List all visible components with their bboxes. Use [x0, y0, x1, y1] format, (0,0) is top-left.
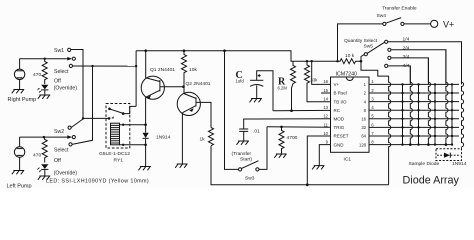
svg-text:Sample Diode: Sample Diode [409, 161, 440, 167]
svg-text:12: 12 [323, 114, 328, 119]
svg-text:Start): Start) [240, 157, 252, 163]
switch Sw5 pole [364, 53, 367, 56]
node RC R-tap [290, 109, 293, 112]
transistor Q2 2N4401 [177, 81, 211, 116]
capacitor C 1ufd (polarized) [236, 70, 264, 86]
svg-text:64: 64 [361, 134, 366, 139]
wire relay armature to vertical x136 [123, 106, 136, 113]
wire Q1 base to node [160, 86, 184, 88]
svg-text:16: 16 [323, 79, 328, 84]
resistor 33k [305, 60, 331, 102]
wire M2 bottom to ground [19, 157, 21, 170]
wire Sw1 top throw to vertical x83 [71, 50, 83, 119]
terminal V+ [431, 19, 455, 29]
svg-text:RY1: RY1 [114, 158, 124, 164]
wire V+ rail [136, 51, 338, 62]
ground under Right Pump [12, 90, 24, 94]
wire output row 1 [369, 83, 459, 85]
wire output row 64 [369, 135, 459, 137]
svg-text:TB I/O: TB I/O [334, 99, 348, 104]
motor M2 Left Pump [7, 147, 32, 190]
label Sw2 Select Off (Override) [54, 148, 78, 177]
relay contact common dot [108, 108, 111, 111]
IC internal output numbers [359, 82, 367, 147]
IC left pin labels [334, 82, 349, 147]
svg-text:TRIG: TRIG [334, 125, 345, 130]
IC U1 ICM7240 [331, 72, 370, 163]
svg-text:4700: 4700 [287, 135, 298, 141]
svg-text:Sw4: Sw4 [377, 13, 387, 19]
wire vertical x136 (rail / Off bus / relay arm) [135, 51, 137, 107]
switch Sw1 arm wire [20, 58, 68, 60]
LED D1 [37, 85, 48, 95]
svg-text:V+: V+ [443, 19, 454, 29]
svg-text:Sw1: Sw1 [54, 48, 64, 54]
svg-text:Select: Select [54, 69, 69, 75]
diode column D with junction dots [451, 83, 453, 146]
select column 3/4 with hops [428, 58, 430, 145]
capacitor .01 [239, 129, 260, 141]
wire coil top to emitter line [120, 124, 146, 126]
pin 15 stub (B Rsel, unconnected) [321, 92, 331, 94]
wire RC line to pin 13 [273, 109, 331, 111]
wire Q1 emitter vertical down to ground [145, 97, 147, 132]
diode column A with junction dots [401, 83, 403, 146]
wire MOD line to pin 12 [244, 119, 331, 129]
svg-text:IC1: IC1 [344, 157, 352, 163]
svg-text:Diode Array: Diode Array [403, 175, 460, 187]
select column 2/4 with hops [446, 50, 448, 145]
svg-text:470: 470 [33, 72, 41, 78]
relay coil [111, 123, 120, 145]
wire output row 32 [369, 126, 459, 128]
svg-text:Left Pump: Left Pump [7, 184, 32, 189]
svg-text:15: 15 [323, 88, 328, 93]
sample diode 1N914 [437, 153, 461, 158]
LED D2 [37, 164, 48, 176]
svg-text:2/4: 2/4 [403, 45, 410, 51]
wire Q2 collector up to base node [183, 87, 185, 94]
switch Sw5 arm [367, 42, 384, 53]
label Sw1 Select Off (Override) [54, 69, 78, 91]
node TRIG 4700 tap [280, 126, 283, 129]
svg-text:V+: V+ [334, 82, 340, 87]
svg-text:1/4: 1/4 [403, 37, 410, 43]
wire output row 8 [369, 109, 459, 111]
wire x224.5 vertical down to Sw3 [225, 51, 239, 170]
resistor 4700 [279, 127, 298, 154]
wire up to Sw5 pole [361, 54, 364, 61]
svg-text:3/4: 3/4 [403, 54, 410, 60]
Sw5 throw 4/4 [385, 63, 411, 84]
svg-text:1N914: 1N914 [156, 135, 171, 141]
ground under pin 9 [312, 166, 324, 170]
IC left pin numbers [323, 79, 328, 144]
wire Q1 collector to rail [145, 51, 147, 78]
wire output row 128 (common bus row) [369, 144, 453, 146]
svg-text:(Override): (Override) [54, 171, 78, 177]
transistor Q1 2N4401 [141, 67, 175, 99]
wire 1k bottom to bus corner [211, 146, 389, 185]
Sw5 throw 3/4 [388, 54, 429, 84]
svg-text:(Override): (Override) [54, 85, 78, 91]
svg-text:Off: Off [54, 79, 61, 85]
wire x83 junction to relay contact [83, 117, 109, 119]
diode column C with junction dots [434, 83, 436, 146]
svg-text:RC: RC [334, 108, 341, 113]
svg-text:4/4: 4/4 [403, 63, 410, 69]
Sw5 throw 1/4 [385, 37, 462, 85]
svg-text:Sw3: Sw3 [245, 175, 255, 181]
wire M2 top to Sw2 arm [19, 137, 21, 147]
svg-text:Q1 2N4401: Q1 2N4401 [150, 67, 175, 73]
svg-text:1N914: 1N914 [452, 161, 467, 167]
ground under LED D2 [38, 176, 50, 180]
dashed sample drop [461, 147, 463, 149]
ground under 4700 [274, 154, 286, 158]
node: 470 tap on Sw2 arm [43, 136, 45, 138]
svg-text:.01: .01 [253, 129, 260, 135]
wire RESET pin 10 down to reset bus [307, 136, 330, 185]
wire TRIG line to pin 11 [267, 126, 331, 128]
ground under Left Pump [12, 171, 24, 175]
wire output row 4 [369, 101, 459, 103]
wire Sw3 right to TRIG line [259, 127, 267, 170]
svg-text:13: 13 [323, 105, 328, 110]
svg-text:32: 32 [361, 125, 366, 130]
Sw5 throw 2/4 [388, 45, 446, 84]
wire V+ pin 16 feed [312, 61, 331, 84]
wire M1 top to Sw1 arm [19, 59, 21, 69]
switch Sw3 (Transfer Start) [239, 161, 260, 182]
svg-text:GND: GND [334, 142, 345, 147]
svg-text:14: 14 [323, 97, 328, 102]
resistor 10 k (horizontal) [338, 53, 361, 64]
svg-text:Sw2: Sw2 [54, 129, 64, 135]
switch Sw2 [54, 126, 75, 146]
svg-text:1k: 1k [200, 137, 206, 143]
resistor 10k pullup [182, 49, 198, 86]
relay armature [110, 109, 123, 113]
svg-text:1ufd: 1ufd [236, 78, 245, 83]
svg-text:Quantity Select: Quantity Select [344, 38, 378, 44]
svg-text:Sw5: Sw5 [364, 43, 374, 49]
ground under .01 cap [237, 141, 249, 145]
wire output row 16 [369, 118, 459, 120]
wire C bottom to ground [256, 85, 258, 98]
wire Q2 base right then down [196, 102, 211, 127]
wire Sw4 to V+ terminal [404, 23, 431, 25]
wire Sw2 top throw diagonal to x83 junction [71, 119, 83, 128]
motor M1 Right Pump [8, 69, 37, 103]
IC right pin numbers 1-8 [371, 79, 374, 144]
switch Sw4 Transfer Enable [377, 6, 417, 26]
svg-text:10k: 10k [189, 67, 197, 73]
svg-text:470: 470 [33, 153, 41, 159]
relay RY1 dashed enclosure [106, 104, 130, 149]
wire coil bottom to emitter line [120, 144, 146, 146]
svg-text:Select: Select [54, 148, 69, 154]
node: Off bus branch x92.5 [91, 65, 93, 67]
svg-text:ICM7240: ICM7240 [336, 72, 358, 78]
wire C top loop to RC line [257, 71, 273, 111]
svg-text:Right Pump: Right Pump [8, 97, 37, 103]
wire M1 bottom to ground [19, 80, 21, 90]
node Sw4 drop on V+ line [336, 60, 338, 62]
svg-text:Off: Off [54, 158, 61, 164]
switch Sw1 [54, 48, 75, 68]
node: 470 tap on Sw1 arm [44, 58, 46, 60]
wire reset line with hops (Sw5 pole to bottom bus) [361, 61, 391, 185]
svg-text:MOD: MOD [334, 117, 345, 122]
sample diode dashed box [436, 149, 462, 161]
wire GND pin 9 to ground [319, 145, 330, 166]
ground under C [250, 99, 262, 103]
ground under relay line [138, 167, 150, 171]
relay NO contact [108, 117, 111, 120]
wire Sw1 lower throw (Off bus y66) [73, 65, 137, 67]
svg-text:LED: SSI-LXH1090YD (Yellow 10m: LED: SSI-LXH1090YD (Yellow 10mm) [46, 178, 149, 184]
svg-text:128: 128 [359, 142, 367, 147]
node rail to MOD/Sw3 drop [223, 49, 226, 52]
svg-text:10: 10 [323, 131, 328, 136]
diode column B with junction dots [417, 83, 419, 146]
svg-text:10 k: 10 k [345, 53, 355, 59]
switch Sw2 arm wire [20, 136, 68, 138]
svg-text:B Rsel: B Rsel [334, 91, 347, 96]
wire output row 2 [369, 92, 459, 94]
resistor 1k [200, 128, 214, 146]
wire Q2 emitter down to ground [181, 113, 183, 164]
ground under Q2 emitter [175, 164, 187, 168]
svg-text:(Transfer: (Transfer [232, 151, 252, 157]
svg-text:Transfer Enable: Transfer Enable [382, 6, 417, 12]
resistor R 6.2M [278, 61, 296, 110]
select column 4/4 with hops [410, 66, 412, 145]
select column 1/4 with hops [462, 42, 464, 147]
svg-text:6.2M: 6.2M [278, 86, 288, 91]
ground under LED D1 [38, 95, 50, 99]
wire vertical x92.5 down to Sw2 lower throw [72, 66, 93, 144]
svg-text:RESET: RESET [334, 134, 349, 139]
node 10k right / pole / reset-line [360, 60, 363, 63]
diode D3 1N914 (flyback) [143, 133, 171, 141]
node junction x83 y118.5 [82, 117, 84, 119]
resistor R 470 (bottom) [42, 137, 47, 162]
svg-text:G5LE-1-DC12: G5LE-1-DC12 [99, 151, 130, 157]
svg-text:16: 16 [361, 117, 366, 122]
resistor R 470 (top) [42, 59, 47, 84]
svg-text:Q2 2N4401: Q2 2N4401 [186, 81, 211, 87]
wire Sw4 feed [338, 24, 383, 61]
node Off bus at x136 [135, 65, 137, 67]
svg-text:11: 11 [324, 122, 329, 127]
